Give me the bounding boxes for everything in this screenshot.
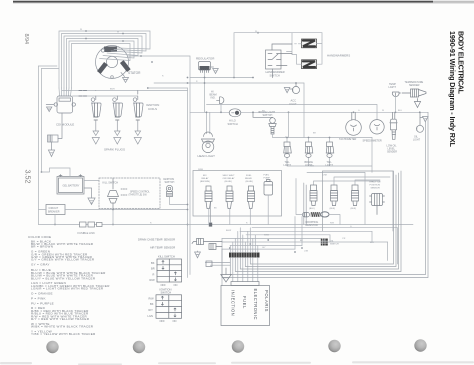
svg-text:KILL SWITCH: KILL SWITCH [103,182,119,185]
svg-text:FUSIBLE LINK: FUSIBLE LINK [78,231,96,235]
temperature sender [399,89,426,97]
svg-text:BK: BK [151,261,155,265]
regulator [199,62,211,73]
svg-text:CDI MODULE: CDI MODULE [56,123,74,127]
svg-text:FUEL: FUEL [264,175,270,177]
svg-text:RESISTOR: RESISTOR [306,224,318,227]
wire dropping resistor [296,179,340,225]
fuel relay plug [248,186,255,209]
oil switch [321,239,328,246]
svg-text:LIGHT: LIGHT [389,86,397,89]
circuit breaker [46,205,65,215]
svg-text:W/BK = WHITE WITH BLACK TRACER: W/BK = WHITE WITH BLACK TRACER [31,325,94,329]
svg-text:O = ORANGE: O = ORANGE [31,292,53,296]
svg-text:OFF: OFF [160,319,166,323]
EFI box connector notch [231,282,259,286]
ignition switch table [156,295,182,319]
wire fan below strip [233,258,258,282]
ground (stator) [121,73,129,83]
ground (mesh) [195,251,201,258]
svg-text:DRAIN CASE TEMP. SENSOR: DRAIN CASE TEMP. SENSOR [138,238,175,242]
svg-text:R/W: R/W [330,223,334,225]
svg-text:Y/BK = YELLOW WITH BLACK TRACE: Y/BK = YELLOW WITH BLACK TRACER [31,332,96,336]
ground (battery) [84,188,95,205]
svg-text:R/W: R/W [310,166,314,168]
bus hatch connector [209,223,212,227]
svg-text:SELF SHUT: SELF SHUT [223,175,236,177]
svg-text:BR: BR [313,133,316,135]
svg-text:W: W [80,29,82,31]
wire coils feed [62,91,188,97]
left border wires [39,66,42,225]
svg-text:W/BK: W/BK [264,234,270,236]
svg-text:FUEL: FUEL [246,175,252,177]
svg-text:INJECTION: INJECTION [231,290,236,316]
wire top long [234,33,322,78]
svg-text:ON: ON [174,283,178,287]
fuse elements [80,222,103,227]
svg-text:R/Y = RED WITH YELLOW TRACER: R/Y = RED WITH YELLOW TRACER [31,317,90,321]
ignition coil 3 [133,91,143,121]
ground (CDI) [46,105,54,112]
svg-text:SENSOR: SENSOR [371,188,381,190]
svg-text:SWITCH: SWITCH [165,181,175,184]
junction dot left border [41,171,43,173]
connector strip pins above [230,228,257,253]
tiny connector boxes on stubs [206,261,212,267]
junction dots lights bus [206,111,421,113]
svg-text:BR = BROWN: BR = BROWN [31,245,53,249]
svg-text:POLARIS: POLARIS [264,290,269,312]
handwarmer switch [266,44,293,78]
svg-text:SWITCH: SWITCH [270,73,280,77]
ground (EFI box) [221,268,232,282]
ground arrow on left wire [48,142,54,157]
throttle position sensor [370,194,385,215]
connector strip [229,253,260,258]
bus y83 [154,82,304,84]
svg-text:(BLUE): (BLUE) [225,181,232,183]
hi beam indicator bulb [217,97,224,104]
svg-text:ELECTRONIC: ELECTRONIC [253,289,258,321]
svg-text:P = PINK: P = PINK [31,296,46,300]
ground (oil light) [420,117,428,122]
svg-text:1990-91 Wiring Diagram - Indy: 1990-91 Wiring Diagram - Indy RXL [448,31,457,148]
svg-text:LIGHT: LIGHT [413,139,421,142]
page top edge dark line [13,1,433,3]
wires handwarmer hookup [287,33,323,64]
tiny wire labels [80,29,402,253]
svg-text:SWITCH: SWITCH [263,114,273,117]
spark plug wire 1 [92,121,99,145]
relay box [193,171,282,217]
binder hole 4 [328,340,340,352]
brake light connector [305,142,313,157]
tachometer [346,112,362,135]
wire breaker to bus [39,210,56,225]
svg-text:LIGHT: LIGHT [289,102,297,106]
ground arrow (temp sender) [414,99,420,108]
svg-text:THROTTLE: THROTTLE [369,182,381,184]
wire relays to bus [209,195,268,225]
oil light bulb [417,112,424,132]
spark plug wire 2 [114,121,121,145]
svg-text:BK: BK [150,302,154,306]
fusible link bus [39,224,414,226]
svg-text:BK: BK [214,208,217,210]
svg-text:PU = PURPLE: PU = PURPLE [31,301,54,305]
bottom wire mesh [222,228,398,249]
svg-text:SENDER: SENDER [409,84,420,87]
svg-text:OFF: OFF [161,283,167,287]
acc light bulb [292,83,299,94]
svg-text:RELAY: RELAY [202,177,210,180]
svg-text:LGN: LGN [304,251,309,253]
svg-text:LIGHT: LIGHT [284,164,292,167]
ignition switch key [166,185,172,196]
svg-text:LINE: LINE [323,175,328,177]
handwarmer element 2 [302,60,317,69]
svg-text:3.52: 3.52 [24,170,33,184]
svg-text:W/BK: W/BK [198,169,204,171]
injector 2 [331,185,338,206]
svg-text:IND.: IND. [211,97,216,100]
wire loop bundle from stator [59,31,150,88]
binder hole 2 [133,341,145,353]
svg-text:BK/W: BK/W [226,230,231,232]
svg-text:Y/R: Y/R [342,238,346,240]
binder hole 1 [46,341,58,353]
svg-text:LGN/R = LIGHT GREEN WITH RED T: LGN/R = LIGHT GREEN WITH RED TRACER [31,287,104,291]
lights bus [190,111,428,113]
svg-text:R/W: R/W [149,296,155,300]
spark plug wire 3 [134,121,141,145]
junction dots switch area [54,204,188,226]
wire tail light feeds [287,83,372,172]
svg-text:BK/R: BK/R [110,89,115,91]
svg-text:HEAD LIGHT: HEAD LIGHT [198,154,216,158]
headlight [202,132,215,153]
wire junction dots [85,30,153,63]
svg-text:SWITCH: SWITCH [161,291,172,295]
self shut off relay plug [226,186,233,209]
svg-text:W: W [255,31,257,33]
bus y77.5 [190,77,253,79]
wire fan into CDI [59,88,72,96]
svg-text:RELAY: RELAY [245,177,253,180]
svg-text:BLU/Y = BLUE WITH YELLOW TRACE: BLU/Y = BLUE WITH YELLOW TRACER [31,276,96,280]
injector box [323,171,394,231]
svg-text:W: W [117,32,119,34]
svg-text:SWITCH: SWITCH [330,244,339,246]
svg-text:(BROWN): (BROWN) [200,181,210,183]
color code legend [28,235,110,336]
small plug left of resistor [303,213,310,217]
stator flywheel [96,46,131,79]
svg-text:COILS: COILS [148,107,157,111]
svg-text:(BLUE): (BLUE) [246,181,253,183]
svg-text:R/W: R/W [150,278,156,282]
svg-text:EFI: EFI [203,175,207,177]
POLARIS EFI box [221,286,270,326]
injector 3 [352,185,359,206]
low oil level sender [390,112,397,139]
dropping resistor [311,212,321,217]
resistor boot oval [321,212,329,217]
wire stator right [128,56,191,78]
svg-text:AIR TEMP. SENSOR: AIR TEMP. SENSOR [150,246,175,250]
injector rail verticals [304,183,306,224]
svg-text:W: W [382,110,384,112]
handwarmer element 1 [302,39,317,48]
wire brake switch to brake lamp [273,134,373,142]
svg-text:SPEEDOMETER: SPEEDOMETER [363,140,382,143]
svg-text:(THROTTLE) SW.: (THROTTLE) SW. [129,195,148,197]
svg-text:BREAKER: BREAKER [48,210,60,213]
svg-text:SENDER: SENDER [387,151,397,154]
svg-text:G: G [358,110,360,112]
nested corner wires bottom right [250,171,393,264]
svg-text:BODY ELECTRICAL: BODY ELECTRICAL [457,31,466,95]
svg-text:LIGHT: LIGHT [326,164,334,167]
wires switch area [65,181,188,210]
svg-text:ON: ON [173,319,177,323]
binder hole 5 [414,339,426,351]
ignition coil 1 [91,91,101,121]
svg-text:GY = GRAY: GY = GRAY [31,263,50,267]
svg-text:8/94: 8/94 [23,34,29,45]
main vertical bus pair [188,78,191,278]
svg-text:R: R [162,76,164,78]
svg-text:BR: BR [151,267,155,271]
svg-text:FUEL: FUEL [242,296,247,309]
fuel pump [264,180,273,196]
ground (acc light) [284,88,292,93]
brake light switch [253,78,276,135]
svg-text:(BLK): (BLK) [330,208,336,210]
svg-text:SPEED CONTROL: SPEED CONTROL [130,192,150,194]
wire battery loop [42,168,71,177]
svg-text:R/Y: R/Y [149,308,154,312]
kill switch contacts [108,178,128,210]
kill switch dashed box [99,178,160,209]
junction dots mesh [229,239,325,253]
ignition coil 2 [113,96,123,120]
ground (regulator) [211,67,219,74]
temp light bulb [392,92,399,97]
speedometer [370,120,384,134]
CDI module [54,96,75,113]
case temp sensor plug [192,239,222,245]
svg-text:BLU: BLU [398,110,402,112]
svg-text:GEL BATTERY: GEL BATTERY [63,185,80,188]
wire connector pair marks [79,91,87,97]
kill switch table [157,259,182,282]
svg-text:HANDWARMERS: HANDWARMERS [327,54,350,58]
wire to handwarmer loop [321,33,323,40]
wire regulator down [204,73,206,113]
svg-text:G/Y = GREEN WITH YELLOW TRACER: G/Y = GREEN WITH YELLOW TRACER [31,258,95,262]
tail light connector 1 [284,142,292,157]
wire headlight feed [205,104,222,134]
svg-text:SPARK PLUGS: SPARK PLUGS [104,148,125,152]
EFI relay plug [205,186,212,209]
svg-text:STATOR: STATOR [128,71,141,75]
svg-text:BLU: BLU [370,242,374,244]
battery [57,175,84,195]
wire y88 [148,87,188,89]
svg-text:POSITION: POSITION [370,185,381,187]
binder hole 3 [232,340,244,352]
svg-text:(BLK): (BLK) [351,208,357,210]
svg-text:KILL SWITCH: KILL SWITCH [158,255,175,259]
bottom page-under edge marks [0,361,474,365]
wire kill to bus [112,210,114,225]
shorting plug below CDI [48,113,63,142]
short stubs left of strip [205,263,230,266]
svg-text:R: R [153,272,155,276]
svg-text:TACHOMETER: TACHOMETER [339,138,357,141]
tail light connector 2 [326,142,334,157]
svg-text:SWITCH: SWITCH [228,122,238,126]
svg-text:LGN: LGN [148,314,153,318]
bus y90.5 extension dots [187,32,297,84]
wire speedo feed [207,105,378,120]
injector 1 [310,185,317,206]
injector feed wires [307,172,390,224]
air temp sensor plug [209,244,222,250]
hi-lo dimmer switch [229,109,241,117]
svg-text:REGULATOR: REGULATOR [196,57,215,61]
wire temp light down [395,96,397,113]
svg-text:(BLK): (BLK) [309,208,315,210]
svg-text:OFF RELAY: OFF RELAY [223,177,236,180]
